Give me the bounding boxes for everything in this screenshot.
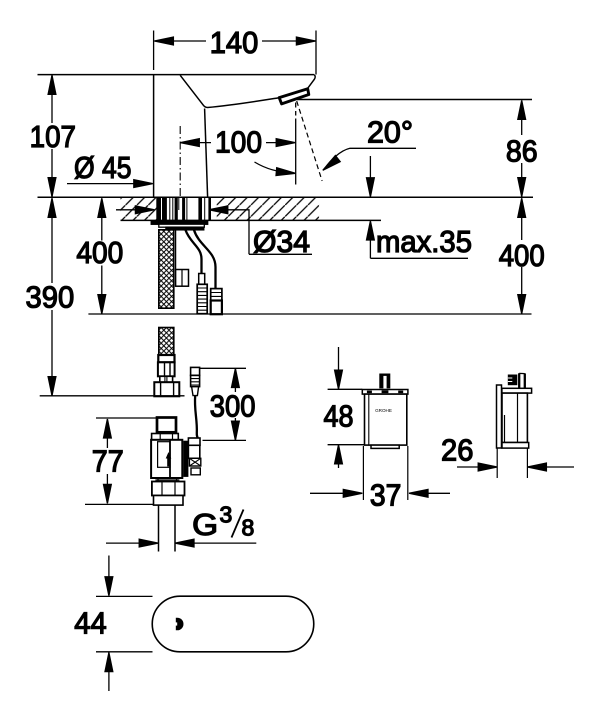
dim 77 bbox=[96, 417, 156, 419]
svg-text:44: 44 bbox=[74, 606, 106, 641]
svg-text:390: 390 bbox=[26, 280, 75, 315]
angle arc left w/ arrow bbox=[255, 162, 292, 173]
battery box front: body bbox=[365, 394, 407, 445]
solenoid coil bbox=[183, 441, 188, 477]
svg-text:300: 300 bbox=[210, 388, 256, 423]
hose collar bbox=[158, 355, 174, 362]
svg-text:max.35: max.35 bbox=[376, 224, 472, 259]
break line (400 bottom) bbox=[88, 313, 531, 315]
faucet body right edge bbox=[205, 109, 208, 197]
dim 86 bbox=[297, 99, 532, 101]
battery box front: plug bbox=[379, 374, 390, 389]
centerline faucet (dash-dot) bbox=[179, 126, 181, 197]
cable tube bbox=[175, 229, 177, 270]
sensor cable 2 bbox=[194, 230, 216, 289]
dim 100 bbox=[181, 142, 294, 144]
sensor window bbox=[176, 618, 184, 631]
plug 1 bbox=[197, 274, 207, 314]
valve: top hex flange bbox=[152, 434, 179, 440]
dim 48 bbox=[328, 389, 365, 444]
svg-text:86: 86 bbox=[506, 134, 538, 169]
svg-text:3: 3 bbox=[220, 502, 233, 528]
deck hole arrows bbox=[116, 209, 153, 211]
battery box side: cap bbox=[502, 388, 532, 393]
svg-text:77: 77 bbox=[92, 444, 124, 479]
aerator bbox=[279, 89, 309, 104]
dim 26 bbox=[497, 448, 527, 478]
solenoid cable bbox=[195, 396, 199, 440]
battery box side: back plate bbox=[497, 385, 502, 448]
mounting flange below deck bbox=[151, 221, 207, 224]
supply pipe bbox=[159, 505, 176, 551]
hose knurled section bbox=[158, 362, 175, 376]
dim 44 bbox=[96, 596, 153, 651]
braided hose lower bbox=[159, 328, 174, 356]
braided hose upper bbox=[159, 230, 174, 308]
svg-text:GROHE: GROHE bbox=[375, 408, 392, 413]
svg-text:Ø 45: Ø 45 bbox=[74, 150, 132, 185]
sensor cable 1 bbox=[186, 230, 202, 274]
valve neck bbox=[155, 478, 179, 482]
valve hex nut bbox=[152, 482, 185, 496]
dim 37 bbox=[363, 446, 407, 500]
svg-text:400: 400 bbox=[499, 238, 545, 273]
bleed screw crosshatch box bbox=[189, 458, 200, 466]
deck bottom line bbox=[121, 219, 382, 221]
flow arrow inside valve bbox=[166, 452, 172, 467]
deck hatch right bbox=[217, 197, 320, 220]
battery box front: cap bbox=[362, 390, 408, 395]
dim 390 bbox=[51, 199, 53, 396]
dim 400 right bbox=[521, 199, 523, 314]
solenoid plug on cable bbox=[191, 367, 200, 375]
plug 2 bbox=[211, 289, 222, 315]
dim 107 bbox=[51, 76, 53, 197]
390 bottom line bbox=[40, 395, 185, 397]
svg-text:48: 48 bbox=[324, 399, 354, 434]
valve body bbox=[151, 440, 182, 478]
battery box side: bottom bbox=[502, 443, 529, 449]
shank stripes in deck bbox=[157, 197, 211, 220]
battery box side: plug bbox=[508, 375, 518, 386]
svg-text:8: 8 bbox=[242, 515, 255, 541]
svg-text:107: 107 bbox=[30, 119, 76, 154]
O34 leader + label bbox=[210, 210, 312, 255]
faucet neck diagonal bbox=[180, 75, 207, 107]
hose neck bbox=[160, 376, 173, 382]
deck top line bbox=[38, 196, 534, 198]
faucet body outline bbox=[153, 75, 155, 197]
svg-text:Ø34: Ø34 bbox=[253, 224, 310, 259]
spout angled axis (dash) bbox=[297, 101, 322, 181]
dim 300 bbox=[200, 367, 246, 369]
battery box front: foot bbox=[371, 445, 399, 448]
bottom oval escutcheon bbox=[152, 596, 314, 652]
deck hatch left bbox=[121, 197, 158, 220]
spout underside bbox=[208, 98, 280, 108]
hose end nut bbox=[154, 382, 179, 396]
svg-text:100: 100 bbox=[215, 124, 262, 159]
valve: threaded nipple bbox=[157, 418, 176, 433]
filter box bbox=[176, 270, 189, 287]
svg-text:140: 140 bbox=[210, 25, 259, 60]
G3/8 arrows bbox=[106, 542, 157, 544]
svg-text:37: 37 bbox=[370, 478, 402, 513]
dim 400 left bbox=[101, 199, 103, 314]
svg-text:G: G bbox=[192, 507, 218, 542]
battery box side: body bbox=[502, 393, 527, 442]
wire top reference line bbox=[38, 74, 315, 76]
dim 140 bbox=[154, 31, 316, 75]
svg-text:400: 400 bbox=[76, 235, 123, 270]
spout vertical ref dashes bbox=[295, 103, 297, 185]
max.35 bbox=[369, 156, 371, 180]
svg-text:26: 26 bbox=[441, 433, 473, 468]
svg-text:20°: 20° bbox=[367, 115, 413, 150]
